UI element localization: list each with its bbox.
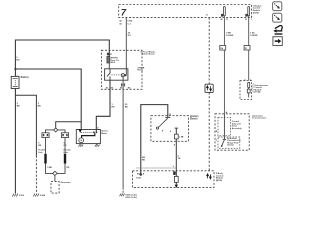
TCM pin terminal [248, 82, 250, 87]
svg-text:(TCM): (TCM) [254, 92, 260, 94]
in-line connector on start wire [174, 176, 178, 182]
ECM pin terminal left [224, 7, 226, 16]
in-switch connector [175, 134, 179, 139]
starter ground left [79, 144, 81, 145]
relay coil pin [122, 77, 124, 80]
connector terminal left [42, 133, 49, 138]
wire dashed segment to ground G104 [35, 156, 37, 194]
wire relay 85 to ground G305 [122, 80, 124, 188]
bottom harness dashed box [133, 171, 215, 188]
svg-text:BK: BK [38, 106, 42, 108]
ground G103 [12, 194, 18, 197]
junction block mark [173, 171, 175, 175]
wire ignition feed [141, 105, 168, 175]
ignition start contact [175, 127, 179, 129]
wire ECM to transmission [223, 16, 225, 114]
serial data icon box [205, 84, 213, 92]
wire ECM to TCM [248, 16, 250, 81]
wire fuse to relay [108, 63, 110, 69]
svg-text:G103: G103 [19, 195, 25, 197]
svg-text:Generator: Generator [60, 181, 71, 184]
svg-text:PU: PU [128, 35, 131, 37]
generator box [51, 181, 59, 193]
ECM dashed box [119, 5, 252, 18]
wire branch to fusible link splice [56, 122, 81, 128]
wire fusible links to bottom splice [46, 164, 66, 174]
starter motor box [76, 130, 100, 144]
icon zoom button 1 [273, 2, 282, 11]
fuse block underhood dashed box [101, 50, 142, 89]
svg-text:RD: RD [142, 160, 146, 162]
splice dot [140, 173, 142, 175]
svg-text:RD: RD [16, 59, 20, 61]
starter B+ arrowhead [78, 129, 82, 133]
svg-text:40 A: 40 A [111, 61, 116, 64]
wire battery negative branch [15, 95, 36, 155]
icon zoom button 2 [273, 13, 282, 22]
serial data dashed wire [208, 18, 210, 171]
serial data arrows glyph [207, 174, 212, 179]
wire ECM to relay coil [125, 18, 127, 75]
wire battery negative to ground G103 [14, 89, 16, 194]
wire battery positive to fuse block [15, 40, 109, 76]
TCM brace [252, 84, 253, 93]
svg-text:Motor: Motor [101, 132, 107, 135]
svg-text:RD: RD [112, 107, 116, 109]
TCM internal element [247, 88, 250, 98]
connector pin bar [107, 53, 109, 56]
fusible link element right [64, 138, 66, 154]
ground G104 [33, 194, 39, 197]
svg-text:RD: RD [38, 145, 41, 147]
svg-text:Battery: Battery [21, 76, 30, 79]
splice diamond bottom [53, 171, 58, 175]
svg-text:Underhood: Underhood [142, 54, 155, 56]
park switch dashed box [218, 137, 240, 148]
svg-text:(BCM): (BCM) [216, 180, 222, 182]
start wire arrow end [175, 185, 178, 188]
svg-text:0 BK: 0 BK [47, 167, 52, 169]
wire splice to generator [54, 176, 56, 182]
fusible link element left [45, 138, 47, 154]
relay internal dotted link [111, 74, 121, 76]
ignition switch B contact [165, 117, 170, 119]
svg-text:C34 BR: C34 BR [250, 34, 258, 37]
svg-text:BK: BK [125, 107, 129, 109]
svg-text:RD: RD [66, 167, 69, 169]
icon forward button [273, 37, 282, 46]
control solenoid dashed box [218, 117, 231, 136]
wire ignition start output [175, 128, 177, 185]
svg-text:Relay: Relay [138, 70, 144, 72]
splice diamond top [54, 128, 58, 132]
TCM dashed box [240, 81, 252, 100]
svg-text:Switch: Switch [190, 117, 198, 120]
connector mark C2 [122, 83, 125, 86]
relay STRTR box [105, 69, 128, 80]
relay contact [107, 69, 110, 80]
node battery positive junction [14, 68, 16, 70]
svg-text:C34 BN: C34 BN [226, 34, 234, 37]
fuse STRTR [107, 56, 110, 63]
connector terminal right [61, 133, 68, 138]
battery B1 [11, 76, 19, 88]
svg-text:G305 (1.8L): G305 (1.8L) [125, 197, 137, 199]
svg-text:BK: BK [17, 106, 21, 108]
wire battery junction to starter B+ cable [15, 69, 81, 129]
wire into solenoid box [223, 114, 225, 140]
svg-text:Switch: Switch [227, 144, 234, 147]
svg-text:Transmission: Transmission [252, 117, 267, 120]
wire splice rail top [46, 130, 66, 133]
starter heavy link [82, 133, 95, 138]
svg-text:1 4B: 1 4B [179, 135, 184, 138]
icon jump arrow glyph [273, 26, 282, 34]
park switch contact [223, 138, 226, 140]
relay coil [121, 74, 124, 77]
automatic transmission dashed box [215, 114, 249, 150]
svg-text:S110: S110 [136, 177, 142, 179]
wire relay 87 to starter solenoid [96, 80, 110, 131]
in-line connector left [220, 46, 226, 51]
svg-text:(ECM): (ECM) [253, 12, 259, 14]
svg-text:7: 7 [121, 7, 127, 18]
starter solenoid winding [81, 131, 93, 133]
ignition switch dashed box [151, 116, 189, 142]
in-line connector right [244, 46, 250, 51]
ECM pin terminal right [248, 7, 250, 16]
starter motor M [79, 138, 84, 143]
svg-text:G104: G104 [40, 194, 46, 197]
dotted harness line [137, 167, 177, 169]
ignition switch arm [158, 118, 168, 127]
svg-text:Assembly: Assembly [232, 127, 243, 130]
ground G305 [120, 194, 125, 197]
starter ground right [96, 144, 98, 145]
starter solenoid contacts [93, 131, 95, 133]
